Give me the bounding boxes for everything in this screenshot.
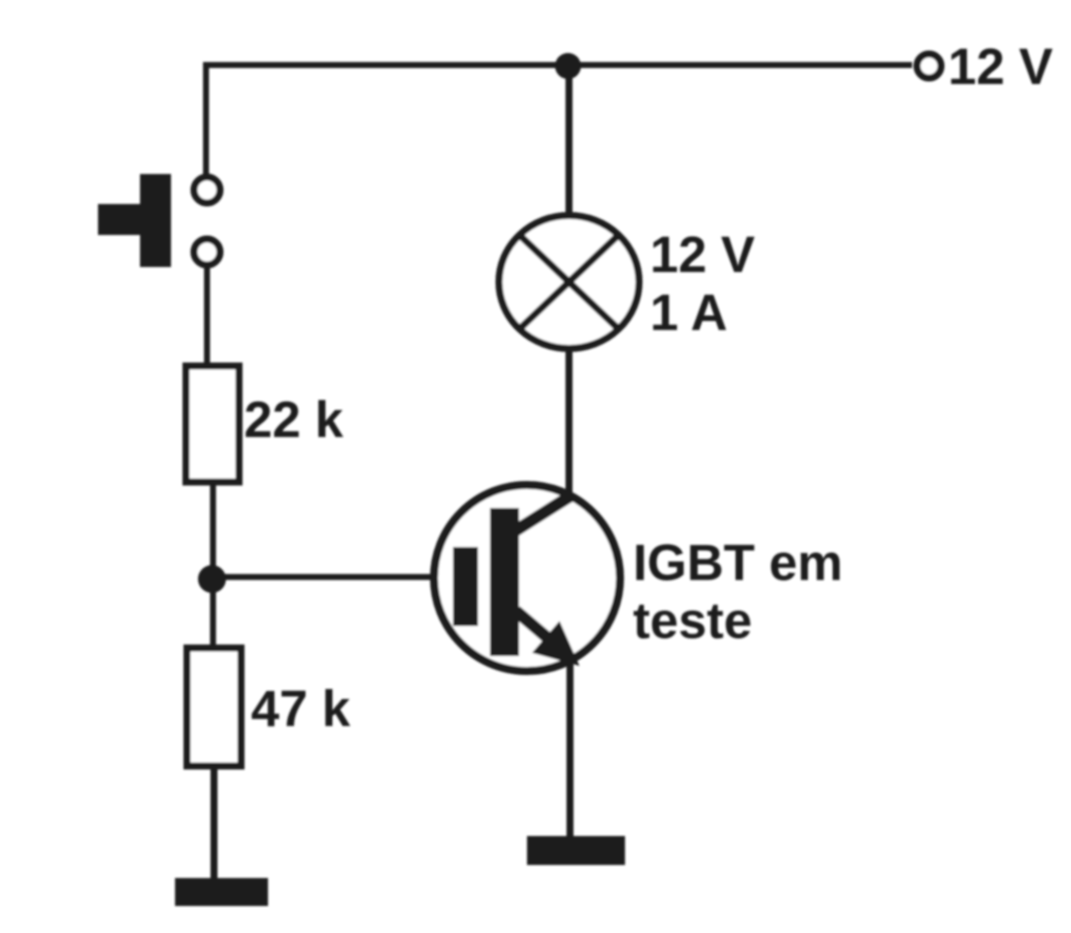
svg-text:teste: teste — [633, 592, 752, 649]
svg-text:22 k: 22 k — [244, 391, 344, 448]
svg-text:12 V: 12 V — [948, 38, 1053, 95]
svg-text:1 A: 1 A — [650, 284, 727, 341]
svg-text:47 k: 47 k — [251, 680, 351, 737]
svg-text:IGBT em: IGBT em — [633, 534, 843, 591]
svg-text:12 V: 12 V — [650, 226, 755, 283]
